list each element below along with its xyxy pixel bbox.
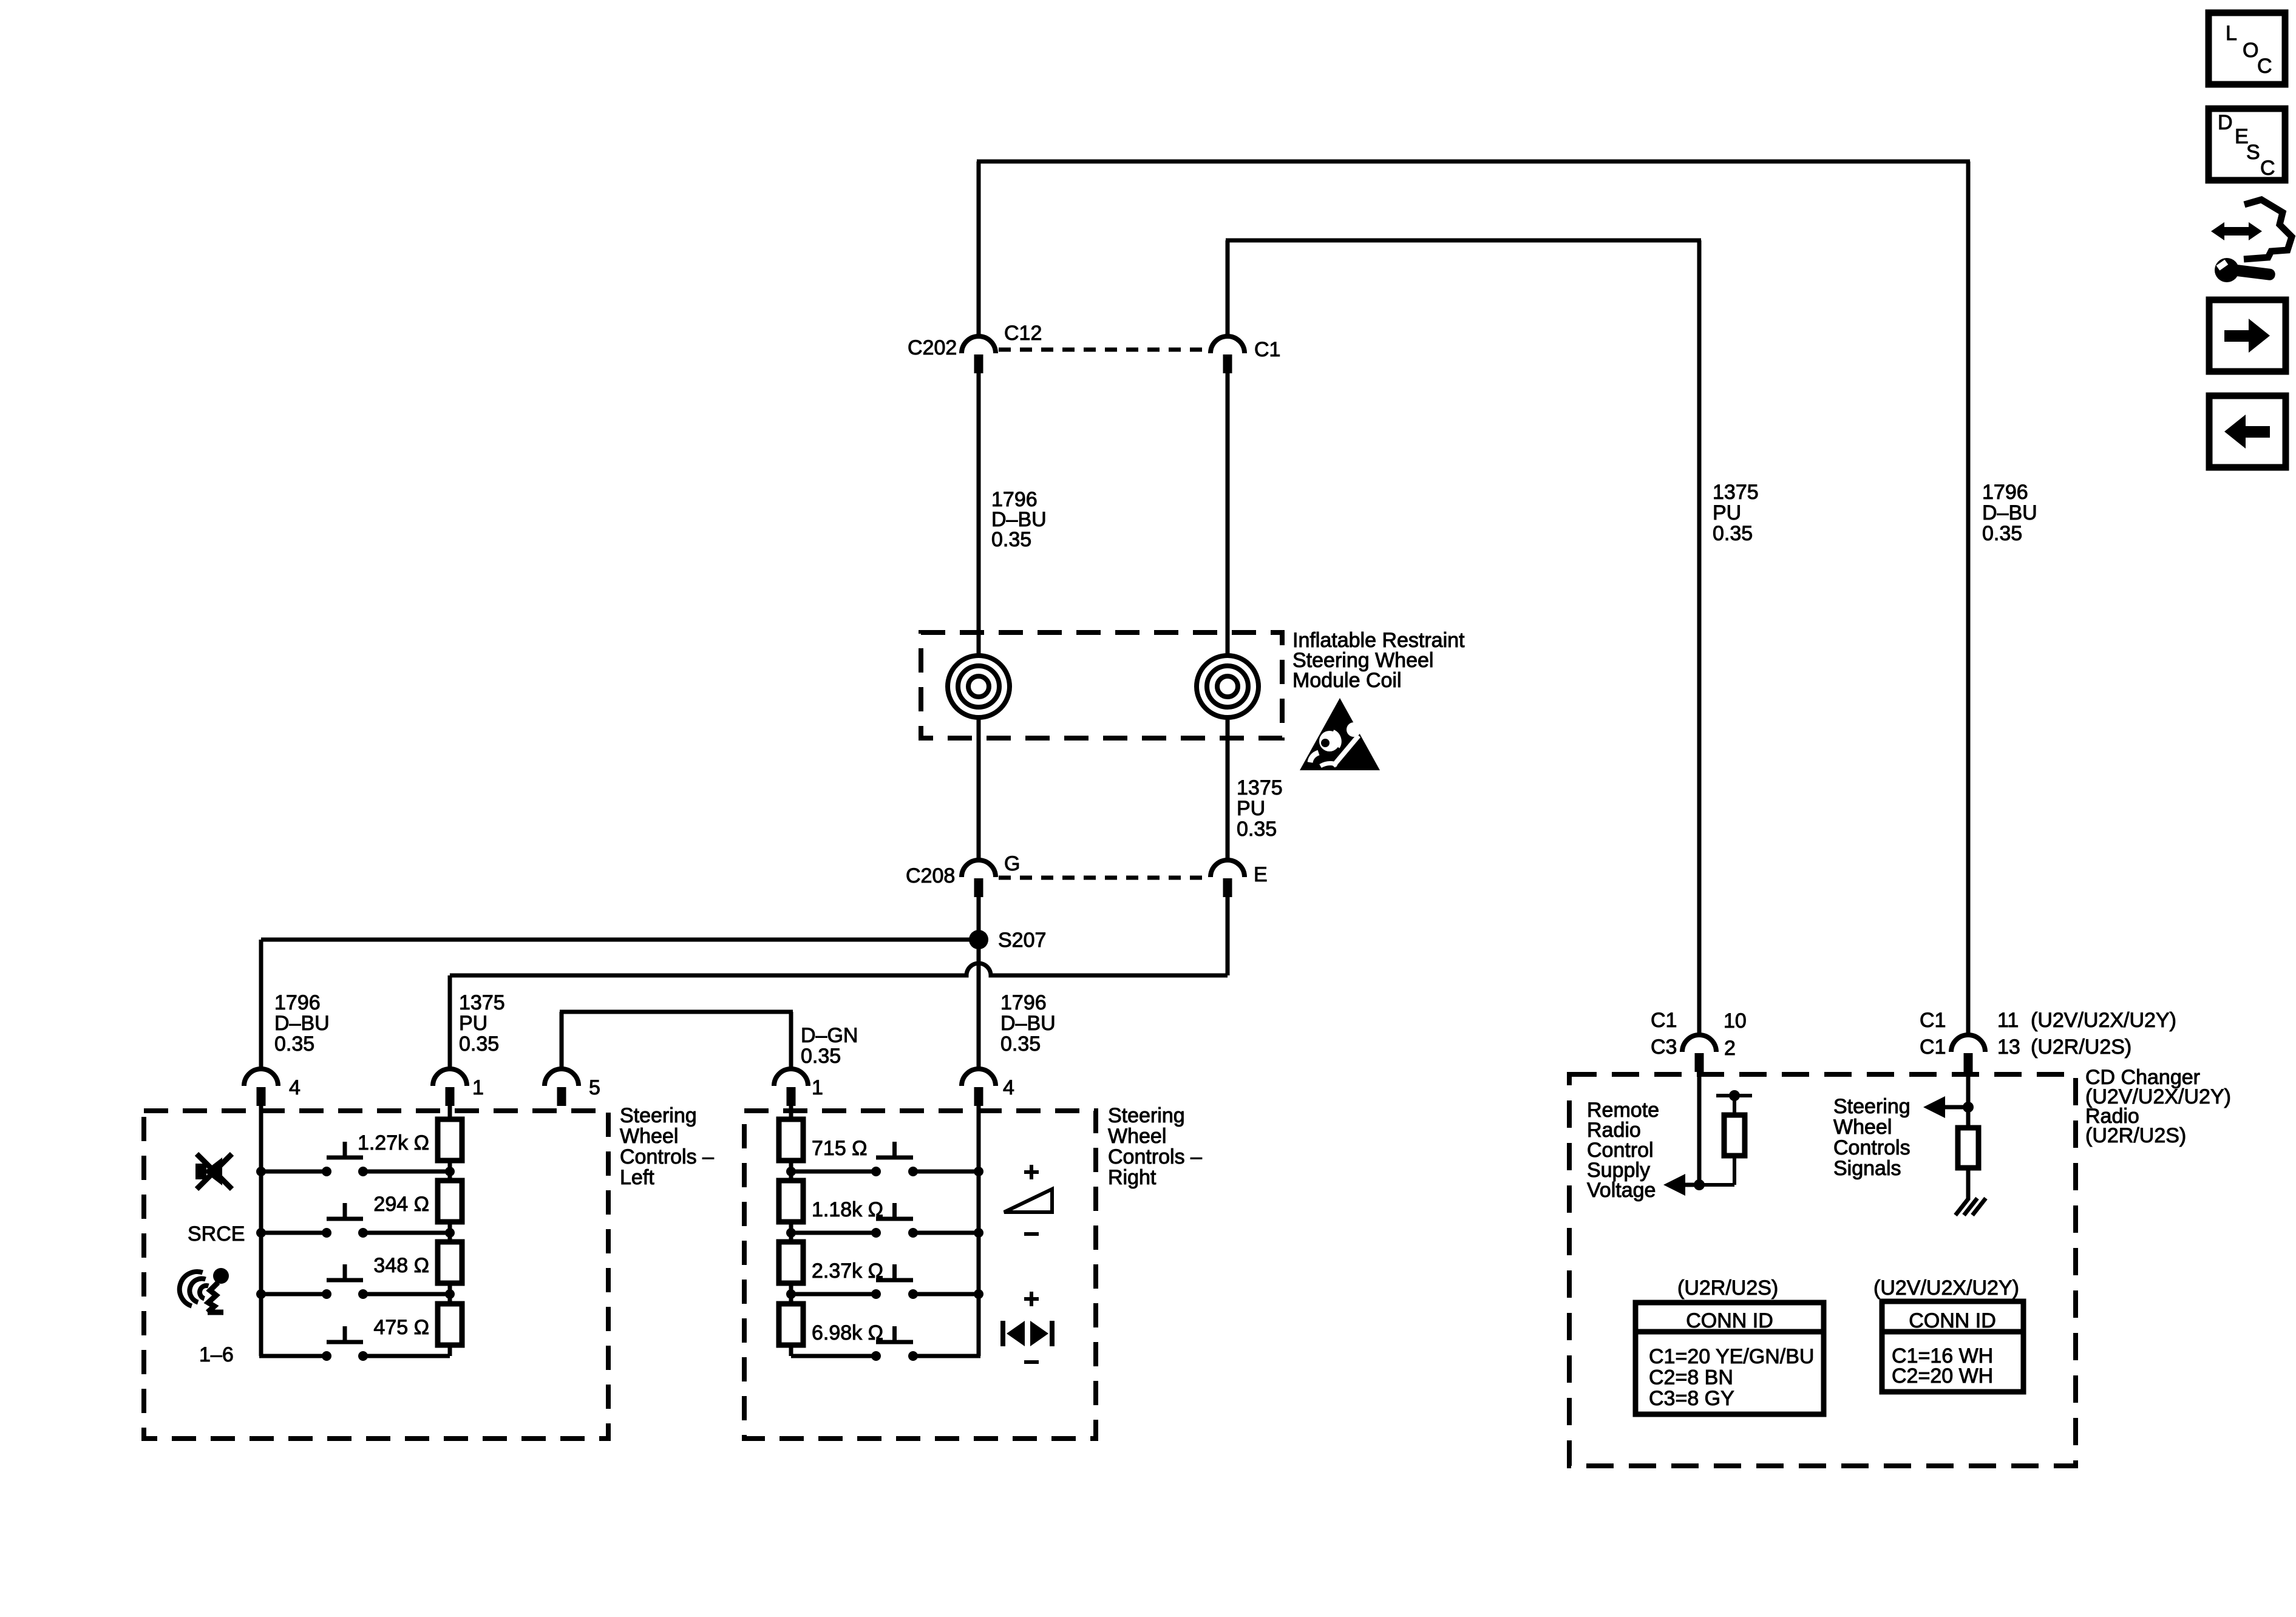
svg-text:4: 4 xyxy=(1003,1076,1014,1099)
svg-text:Controls –: Controls – xyxy=(1108,1145,1202,1168)
svg-text:1375: 1375 xyxy=(1237,776,1283,799)
svg-text:(U2V/U2X/U2Y): (U2V/U2X/U2Y) xyxy=(1873,1276,2019,1300)
svg-text:0.35: 0.35 xyxy=(459,1032,499,1056)
svg-text:715 Ω: 715 Ω xyxy=(812,1137,868,1160)
svg-text:C1: C1 xyxy=(1920,1009,1946,1032)
svg-text:1–6: 1–6 xyxy=(199,1343,234,1366)
svg-text:Wheel: Wheel xyxy=(1108,1125,1166,1148)
svg-text:294 Ω: 294 Ω xyxy=(373,1193,429,1216)
svg-text:(U2R/U2S): (U2R/U2S) xyxy=(2085,1124,2186,1147)
svg-text:0.35: 0.35 xyxy=(801,1045,841,1068)
svg-text:1.27k Ω: 1.27k Ω xyxy=(358,1131,429,1154)
svg-text:D: D xyxy=(2218,111,2233,134)
svg-text:O: O xyxy=(2243,39,2258,62)
svg-text:6.98k Ω: 6.98k Ω xyxy=(812,1321,883,1344)
svg-text:S: S xyxy=(2246,141,2260,164)
svg-text:C202: C202 xyxy=(908,336,957,359)
svg-text:0.35: 0.35 xyxy=(991,528,1031,551)
svg-text:475 Ω: 475 Ω xyxy=(373,1316,429,1339)
svg-text:C1: C1 xyxy=(1254,338,1280,361)
svg-text:Wheel: Wheel xyxy=(620,1125,678,1148)
svg-text:C3=8 GY: C3=8 GY xyxy=(1649,1387,1734,1410)
svg-text:1796: 1796 xyxy=(1982,481,2028,504)
svg-text:C1: C1 xyxy=(1920,1036,1946,1059)
svg-text:L: L xyxy=(2226,22,2237,45)
svg-text:PU: PU xyxy=(1237,797,1265,820)
svg-text:(U2R/U2S): (U2R/U2S) xyxy=(1677,1276,1778,1300)
svg-text:Steering: Steering xyxy=(1108,1104,1185,1127)
svg-text:1796: 1796 xyxy=(274,991,321,1014)
svg-text:S207: S207 xyxy=(998,929,1046,952)
svg-text:1375: 1375 xyxy=(1713,481,1759,504)
svg-text:G: G xyxy=(1004,852,1020,875)
svg-text:348 Ω: 348 Ω xyxy=(373,1254,429,1277)
svg-text:C2=8 BN: C2=8 BN xyxy=(1649,1366,1733,1389)
svg-text:SRCE: SRCE xyxy=(188,1222,245,1246)
svg-text:C1=20 YE/GN/BU: C1=20 YE/GN/BU xyxy=(1649,1345,1814,1368)
svg-text:2: 2 xyxy=(1724,1037,1736,1060)
svg-text:1375: 1375 xyxy=(459,991,505,1014)
svg-text:C: C xyxy=(2260,157,2275,180)
svg-text:(U2R/U2S): (U2R/U2S) xyxy=(2031,1036,2131,1059)
svg-text:D–BU: D–BU xyxy=(274,1012,330,1035)
svg-text:0.35: 0.35 xyxy=(1000,1032,1041,1056)
svg-text:C1: C1 xyxy=(1651,1009,1677,1032)
svg-text:C12: C12 xyxy=(1004,322,1042,345)
svg-text:0.35: 0.35 xyxy=(274,1032,314,1056)
svg-text:D–BU: D–BU xyxy=(1982,501,2037,524)
svg-text:1796: 1796 xyxy=(1000,991,1047,1014)
svg-text:Module Coil: Module Coil xyxy=(1292,669,1402,692)
svg-text:1: 1 xyxy=(812,1076,823,1099)
svg-text:10: 10 xyxy=(1724,1009,1747,1032)
svg-text:1.18k Ω: 1.18k Ω xyxy=(812,1198,883,1221)
svg-text:Controls: Controls xyxy=(1833,1136,1911,1159)
svg-text:C208: C208 xyxy=(906,864,955,887)
svg-text:13: 13 xyxy=(1997,1036,2020,1059)
svg-text:4: 4 xyxy=(289,1076,301,1099)
svg-text:11: 11 xyxy=(1997,1009,2019,1032)
svg-text:Left: Left xyxy=(620,1166,654,1189)
svg-text:PU: PU xyxy=(1713,501,1741,524)
svg-text:D–BU: D–BU xyxy=(1000,1012,1056,1035)
svg-text:0.35: 0.35 xyxy=(1982,522,2022,545)
svg-text:Controls –: Controls – xyxy=(620,1145,714,1168)
svg-text:Signals: Signals xyxy=(1833,1157,1901,1180)
svg-text:Steering: Steering xyxy=(620,1104,697,1127)
svg-text:1: 1 xyxy=(472,1076,484,1099)
svg-text:Wheel: Wheel xyxy=(1833,1116,1892,1139)
svg-text:0.35: 0.35 xyxy=(1237,818,1277,841)
svg-text:C3: C3 xyxy=(1651,1036,1677,1059)
svg-text:CONN ID: CONN ID xyxy=(1686,1309,1773,1332)
svg-text:D–GN: D–GN xyxy=(801,1024,858,1047)
svg-text:E: E xyxy=(1254,863,1268,886)
svg-text:CONN ID: CONN ID xyxy=(1909,1309,1996,1332)
svg-text:C: C xyxy=(2257,55,2272,78)
svg-text:Right: Right xyxy=(1108,1166,1156,1189)
svg-text:0.35: 0.35 xyxy=(1713,522,1753,545)
svg-text:C2=20 WH: C2=20 WH xyxy=(1892,1364,1993,1388)
svg-text:PU: PU xyxy=(459,1012,487,1035)
svg-text:2.37k Ω: 2.37k Ω xyxy=(812,1259,883,1283)
svg-text:5: 5 xyxy=(589,1076,600,1099)
svg-text:Voltage: Voltage xyxy=(1587,1179,1656,1202)
svg-text:(U2V/U2X/U2Y): (U2V/U2X/U2Y) xyxy=(2031,1009,2176,1032)
svg-text:Steering: Steering xyxy=(1833,1095,1911,1118)
